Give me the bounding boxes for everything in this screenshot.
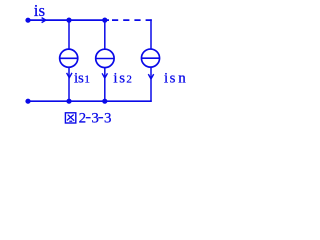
wire: top rail dashed segment to branch n xyxy=(112,19,152,21)
wire: branch 2 lower stub xyxy=(104,67,106,101)
terminal node a (top-left) xyxy=(25,18,30,23)
current source is2 (circle with bar) xyxy=(96,49,114,67)
wire: bottom rail xyxy=(28,100,152,102)
svg-text:isn: isn xyxy=(164,71,186,87)
arrow: is2 current direction (down) xyxy=(102,73,107,78)
wire: branch n lower stub xyxy=(150,67,152,102)
arrow: isn current direction (down) xyxy=(148,74,153,79)
wire: branch n top corner drop xyxy=(150,19,152,49)
current source isn (circle with bar) xyxy=(141,49,159,67)
wire: branch 1 lower stub xyxy=(68,67,70,101)
caption 图2-3-3 xyxy=(65,111,111,127)
svg-text:is: is xyxy=(34,1,45,20)
svg-text:is1: is1 xyxy=(74,70,90,86)
svg-text:is2: is2 xyxy=(113,70,131,86)
current arrow is (on top rail) xyxy=(42,18,46,23)
arrow: is1 current direction (down) xyxy=(67,73,72,78)
junction: top of branch 2 xyxy=(102,18,107,23)
current source is1 (circle with bar) xyxy=(60,49,78,67)
terminal node b (bottom-left) xyxy=(25,99,30,104)
junction: bottom of branch 2 xyxy=(102,99,107,104)
wire: branch 1 upper stub xyxy=(68,20,70,49)
junction: top of branch 1 xyxy=(66,18,71,23)
junction: bottom of branch 1 xyxy=(66,99,71,104)
wire: top rail solid segment from terminal a to node 2 xyxy=(28,19,109,21)
svg-text:233: 233 xyxy=(79,111,112,127)
wire: branch 2 upper stub xyxy=(104,20,106,50)
